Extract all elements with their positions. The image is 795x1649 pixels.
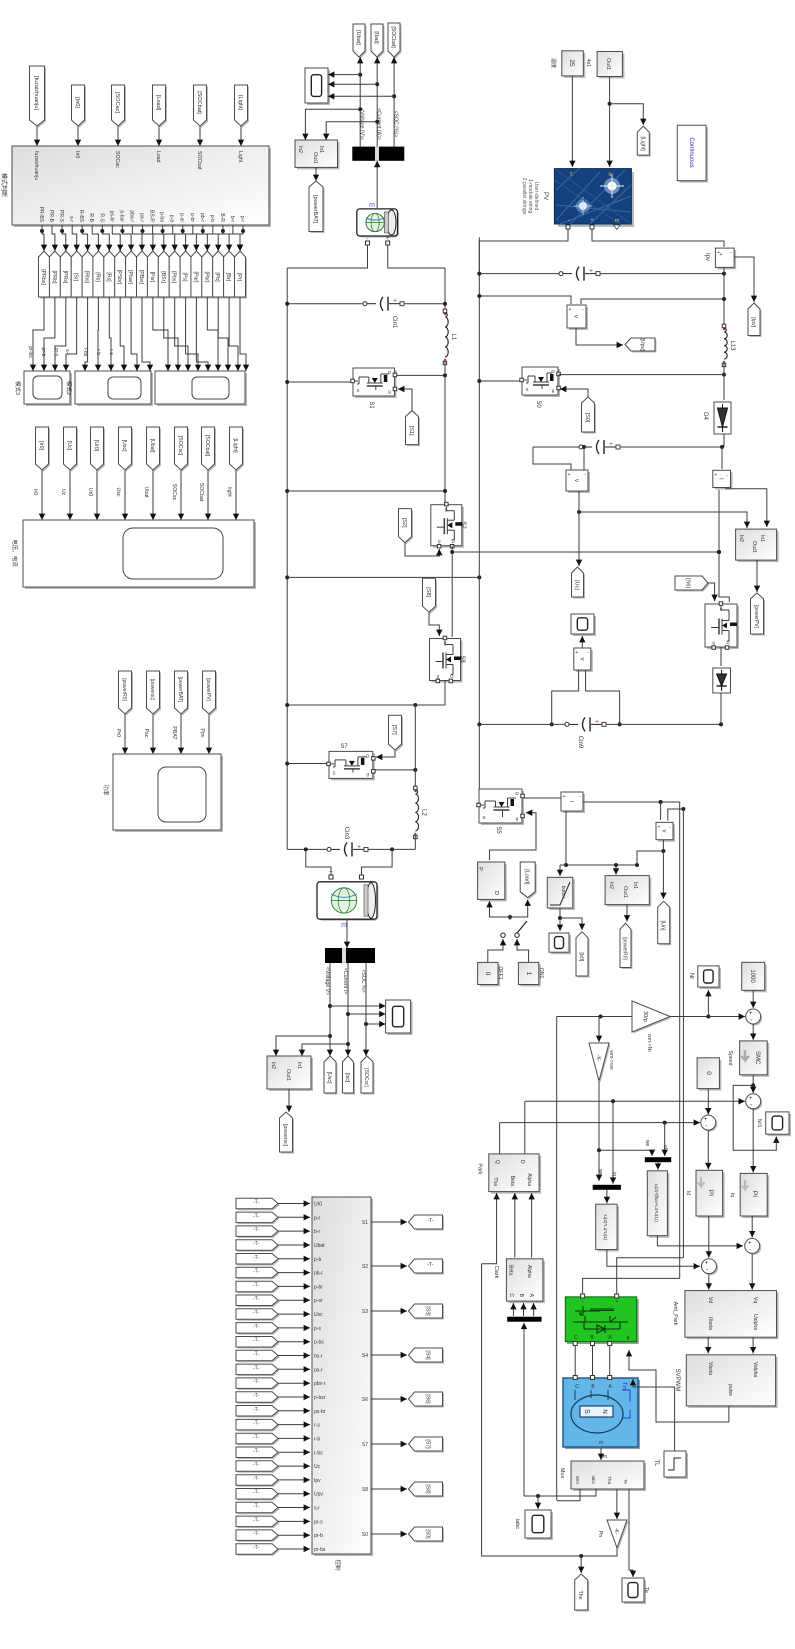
tag [S2] from (400, 510, 413, 544)
svg-text:-T-: -T- (253, 1296, 259, 1302)
wire sum5 to AntiPark Vd (708, 1275, 710, 1290)
svg-text:[powerR0]: [powerR0] (622, 937, 628, 960)
svg-text:[Usc]: [Usc] (326, 1072, 332, 1084)
svg-text:In2: In2 (270, 1062, 276, 1069)
svg-text:Light: Light (237, 151, 243, 163)
svg-text:Q: Q (494, 1160, 500, 1164)
svg-text:D4: D4 (702, 412, 708, 420)
svg-text:Nr: Nr (688, 973, 694, 979)
tag [S0] from (583, 399, 596, 434)
scope iabc (527, 1512, 553, 1540)
svg-text:L13: L13 (729, 340, 735, 351)
tag [Upv] from (627, 340, 657, 353)
svg-text:-T-: -T- (253, 1338, 259, 1344)
svg-text:电压、电流: 电压、电流 (11, 539, 19, 567)
svg-text:PR-BS: PR-BS (38, 207, 44, 223)
svg-text:m: m (599, 1440, 603, 1446)
svg-text:S: S (583, 1409, 590, 1414)
svg-text:Id: Id (685, 1191, 691, 1195)
svg-text:[fuzaizhuanju]: [fuzaizhuanju] (33, 76, 39, 110)
wire Park Q up to sum3 line (499, 1123, 501, 1154)
svg-text:[Ir0]: [Ir0] (38, 441, 44, 450)
svg-text:+: + (575, 650, 578, 656)
wire fcn1 to sum5 (607, 1250, 700, 1267)
svg-text:Continuous: Continuous (688, 137, 694, 167)
wire -K- down to we node (598, 1081, 600, 1181)
goto tag [S0] for S0 (410, 1529, 444, 1543)
svg-text:-T-: -T- (253, 1365, 259, 1371)
tag fuzaizhuanju input (31, 68, 46, 128)
wire green plus up-right to DC bus (617, 1258, 684, 1294)
svg-text:[S1]: [S1] (408, 426, 414, 436)
svg-text:0: 0 (705, 1071, 712, 1075)
svg-text:pb-r: pb-r (199, 213, 205, 222)
wire battery1 plus to right rail (388, 245, 445, 268)
from tag -T- input Uc (238, 1462, 280, 1473)
wire S2 drain down to S8 (451, 546, 453, 637)
svg-text:L1: L1 (450, 334, 456, 341)
wire [Uc] to UI block (69, 470, 71, 520)
wires into mode block (36, 126, 38, 146)
wire butter to scope and Ir0 (559, 908, 561, 931)
svg-text:D: D (519, 1160, 525, 1164)
svg-text:-T-: -T- (253, 1504, 259, 1510)
voltage sensor Uc (568, 472, 590, 493)
svg-text:[S7]: [S7] (425, 1439, 431, 1449)
svg-text:[Uc]: [Uc] (574, 580, 580, 590)
svg-text:-: - (361, 870, 363, 876)
svg-text:S7: S7 (340, 744, 348, 750)
goto tag [S4] for S4 (410, 1350, 444, 1364)
svg-text:[Ipv]: [Ipv] (750, 317, 756, 327)
svg-text:r-s: r-s (314, 1423, 320, 1429)
mosfet S7 (331, 753, 375, 780)
svg-text:we: we (644, 1140, 650, 1147)
wire S7 gate (376, 750, 395, 757)
svg-text:-T-: -T- (253, 1517, 259, 1523)
tag [In0] input (73, 87, 86, 128)
svg-text:p-br: p-br (314, 1284, 323, 1290)
svg-text:[PRs]: [PRs] (62, 271, 68, 284)
svg-text:+: + (705, 1261, 709, 1267)
wire to Nr scope (707, 990, 709, 1017)
svg-text:0: 0 (484, 972, 491, 976)
wires S0 (477, 379, 481, 383)
svg-text:g: g (627, 1335, 630, 1341)
sum4 Vq (746, 1240, 761, 1255)
svg-text:S: S (719, 607, 722, 612)
svg-text:模式判断: 模式判断 (0, 173, 8, 197)
svg-text:-T-: -T- (253, 1310, 259, 1316)
svg-text:-K-: -K- (613, 1528, 619, 1535)
tag [Light] from (231, 429, 244, 472)
svg-text:S0: S0 (535, 400, 541, 408)
svg-text:S6: S6 (362, 1397, 368, 1403)
svg-text:<Current (A)>: <Current (A)> (376, 108, 382, 140)
PV output ports (566, 225, 570, 229)
svg-text:ON1: ON1 (538, 968, 544, 979)
wire Ipv branch to tag (734, 257, 754, 302)
from tag -T- input Upv (238, 1490, 280, 1501)
svg-text:S0: S0 (362, 1532, 368, 1538)
svg-text:+: + (393, 298, 397, 305)
svg-text:i: i (568, 801, 574, 802)
wire -T- to pb-r (278, 1272, 310, 1274)
svg-text:[Rb]: [Rb] (94, 272, 100, 282)
svg-text:-T-: -T- (253, 1213, 259, 1219)
wire iq feedback into sum2 (525, 1100, 745, 1102)
svg-text:In2: In2 (608, 882, 614, 889)
svg-text:+: + (658, 824, 661, 830)
svg-text:pr-b: pr-b (314, 1533, 323, 1539)
constant ON1 1 (520, 964, 540, 986)
svg-text:S2: S2 (362, 1264, 368, 1270)
svg-text:Mux: Mux (559, 1468, 565, 1479)
wire id down to mux (664, 1123, 666, 1156)
tag [S7] from (390, 717, 403, 752)
wire Upv to tag (576, 328, 623, 345)
svg-text:+: + (329, 870, 333, 876)
wire [Ir0] to UI block (41, 470, 43, 520)
svg-text:2 parallel strings: 2 parallel strings (521, 178, 527, 215)
tag [SOCsc] goto (363, 1058, 375, 1095)
svg-text:[SOCsc]: [SOCsc] (177, 436, 183, 456)
svg-text:pr-s: pr-s (53, 348, 59, 357)
from tag -T- input bs-r (238, 1352, 280, 1363)
svg-text:[Un]: [Un] (660, 920, 666, 931)
svg-text:[Load]: [Load] (155, 95, 161, 111)
svg-text:[Ir0]: [Ir0] (578, 952, 584, 961)
tag [powerPV] from (204, 673, 217, 716)
svg-text:[Ibat]: [Ibat] (373, 31, 379, 44)
svg-text:[Load]: [Load] (524, 869, 530, 885)
wires S1 (285, 380, 289, 384)
svg-text:fuzaizhuanju: fuzaizhuanju (33, 151, 39, 180)
wire S6 to diode (720, 647, 722, 666)
svg-text:SOCbat: SOCbat (196, 151, 202, 170)
svg-text:[BSr]: [BSr] (160, 271, 166, 283)
svg-text:pba-r: pba-r (128, 210, 134, 222)
goto tag [S8] for S8 (410, 1484, 444, 1498)
svg-text:S2: S2 (460, 521, 466, 529)
wire -T- to ps-br (278, 1410, 310, 1412)
tag [Load] input (154, 87, 167, 128)
wire -T- to r-b (278, 1437, 310, 1439)
tag [Ir0] goto (578, 933, 590, 977)
scope supercap (388, 1002, 413, 1035)
svg-text:pb-r: pb-r (314, 1271, 323, 1277)
svg-text:S4: S4 (362, 1353, 368, 1359)
svg-text:Clark: Clark (493, 1266, 499, 1279)
from tag -T- input r-s (238, 1421, 280, 1432)
scope Nr1 (768, 1114, 791, 1136)
svg-text:[Rs]: [Rs] (105, 272, 111, 282)
tag [powerR0] goto (622, 925, 633, 969)
svg-text:p-r: p-r (314, 1215, 320, 1221)
svg-text:控制: 控制 (334, 1559, 342, 1571)
svg-text:[Upv]: [Upv] (639, 338, 645, 351)
wire -T- to Uc (278, 1465, 310, 1467)
svg-text:Cin9: Cin9 (577, 736, 583, 749)
tag [Uc] goto (573, 569, 585, 599)
block voltage-current display 电压、电流 (25, 522, 256, 589)
wire id feedback into sum3 (500, 1122, 700, 1124)
svg-text:p-r: p-r (239, 216, 245, 222)
svg-text:[Light]: [Light] (232, 438, 238, 453)
svg-text:Out1: Out1 (605, 58, 611, 70)
svg-text:[SOCac]: [SOCac] (114, 92, 120, 113)
wire 0 to sum3 (707, 1089, 709, 1115)
svg-text:b-r: b-r (229, 216, 235, 222)
svg-text:[powersc]: [powersc] (149, 679, 155, 701)
wire TL to Tm (633, 1379, 675, 1451)
constant OFF1 0 (480, 964, 500, 986)
svg-text:OFF1: OFF1 (497, 966, 503, 979)
svg-text:[powersc]: [powersc] (282, 1124, 288, 1147)
svg-text:Tm: Tm (621, 1382, 627, 1390)
wire PI Iq to sum4 (751, 1216, 753, 1237)
from tag -T- input pr-bs (238, 1545, 280, 1556)
svg-text:SMC: SMC (754, 1051, 760, 1065)
svg-text:[SOCsc]: [SOCsc] (363, 1068, 369, 1087)
svg-text:[S4]: [S4] (425, 1350, 431, 1360)
from tag -T- input p-bsr (238, 1393, 280, 1404)
capacitor Cin3 row (287, 848, 327, 850)
svg-text:<SOC (%)>: <SOC (%)> (393, 111, 399, 138)
PI controller Iq (742, 1175, 769, 1218)
svg-text:Out1: Out1 (285, 1069, 291, 1081)
load line to right (583, 801, 680, 803)
svg-text:<SOC %>: <SOC %> (360, 969, 366, 992)
sum5 Vd (703, 1260, 718, 1275)
svg-text:<Voltage V>: <Voltage V> (324, 967, 330, 995)
tag [powersc] goto (281, 1114, 294, 1154)
wire sum2 to PI Iq (752, 1109, 754, 1173)
sum1 speed (747, 1011, 762, 1026)
mosfet S5 (481, 791, 524, 825)
svg-text:Wm: Wm (575, 1476, 580, 1484)
svg-text:pr-bs: pr-bs (314, 1547, 326, 1553)
svg-text:p-br: p-br (189, 213, 195, 222)
block SMC speed controller (742, 1043, 770, 1077)
svg-text:PI: PI (751, 1191, 758, 1197)
wire Iabc out to scope and clark (524, 1489, 596, 1496)
block power display 功率 (115, 756, 223, 832)
svg-text:Ipv: Ipv (704, 253, 710, 261)
svg-text:[PRbs]: [PRbs] (40, 269, 46, 285)
svg-text:v: v (661, 830, 667, 833)
from tag -T- input s-r (238, 1504, 280, 1515)
svg-text:m: m (603, 1454, 607, 1460)
svg-text:Ualpha: Ualpha (752, 1314, 758, 1330)
svg-text:S1: S1 (362, 1220, 368, 1226)
svg-text:[S6]: [S6] (425, 1394, 431, 1404)
wire [Ubat] to UI block (152, 470, 154, 520)
wire gain to sum1 (670, 1016, 745, 1018)
svg-text:Ppv: Ppv (199, 729, 205, 738)
wire sum1 to SMC (752, 1024, 754, 1040)
from tag -T- input pb-r (238, 1269, 280, 1280)
left rail circuit A (286, 268, 288, 849)
tag [powersc] from (148, 673, 161, 716)
block Park transform (491, 1156, 541, 1194)
svg-text:Pn: Pn (597, 1531, 603, 1538)
tag [SOCbat] from (203, 429, 216, 472)
svg-text:light: light (226, 487, 232, 497)
svg-text:Iq: Iq (729, 1193, 735, 1197)
svg-text:Upv: Upv (314, 1492, 323, 1498)
block mode2 subsystem (77, 373, 153, 406)
tag [powerR0] from (120, 673, 133, 716)
tag [Ipv] goto (750, 305, 762, 338)
inductor L1 (443, 309, 447, 313)
wire S8 to tag (371, 1488, 407, 1490)
from tag -T- input ps-br (238, 1407, 280, 1418)
svg-text:[S6]: [S6] (685, 578, 691, 588)
tag [Isc] goto (344, 1058, 355, 1095)
wire S1 to tag (371, 1221, 407, 1223)
svg-text:S8: S8 (362, 1487, 368, 1493)
wire PI Id to sum5 (708, 1216, 710, 1258)
block control 控制 (314, 1199, 373, 1556)
svg-text:TL: TL (653, 1459, 659, 1467)
wire -T- to p-s (278, 1327, 310, 1329)
wire -T- to p-bs (278, 1341, 310, 1343)
svg-text:Uc: Uc (60, 489, 66, 496)
svg-text:S: S (482, 815, 485, 820)
svg-text:[Sr]: [Sr] (73, 273, 79, 282)
wires AntiPark to SVPWM (707, 1337, 709, 1353)
wire pulse to green g (629, 1350, 729, 1422)
inductor L2 (414, 786, 418, 790)
svg-text:+: + (568, 472, 571, 478)
diode D4 (714, 402, 731, 434)
wire -T- to p-bsr (278, 1396, 310, 1398)
wire -T- to ps-r (278, 1368, 310, 1370)
svg-text:bs-r: bs-r (314, 1354, 323, 1360)
svg-text:+: + (714, 472, 717, 478)
wire -T- to Usc (278, 1313, 310, 1315)
wire rail join y491 (285, 489, 289, 493)
tag [SOCac] input (113, 87, 126, 128)
svg-text:SOCac: SOCac (114, 151, 120, 168)
wire mux to fcn1 (606, 1190, 608, 1203)
block Anti_Park (687, 1293, 779, 1340)
wire S6 gate (708, 583, 715, 601)
svg-text:-T-: -T- (253, 1545, 259, 1551)
wire Park D up to sum2 line (524, 1101, 526, 1154)
svg-text:-T-: -T- (253, 1407, 259, 1413)
tag [Light] input (236, 87, 249, 128)
svg-text:R-BS: R-BS (78, 210, 84, 223)
svg-text:pr-s: pr-s (314, 1519, 323, 1525)
wire [powersc] to power block (152, 714, 154, 754)
svg-text:Usc: Usc (314, 1312, 323, 1318)
wire S3 to tag (371, 1310, 407, 1312)
svg-text:p-s: p-s (314, 1326, 321, 1332)
svg-text:-T-: -T- (253, 1269, 259, 1275)
wire S8 source to rail y705 (287, 681, 445, 706)
svg-text:PBAT: PBAT (171, 726, 177, 740)
step block TL (666, 1453, 688, 1479)
constant 0 (699, 1060, 721, 1091)
wire -T- to p-r (278, 1216, 310, 1218)
svg-text:SOCsc: SOCsc (171, 484, 177, 501)
bus selector supercap (325, 948, 375, 963)
mosfet S0 (524, 369, 560, 397)
svg-text:+: + (563, 794, 566, 800)
svg-text:Load: Load (155, 151, 161, 163)
svg-text:[Pb]: [Pb] (214, 272, 220, 282)
wire Uc sensor down (577, 510, 581, 514)
svg-text:-T-: -T- (427, 1262, 434, 1268)
block Out1 powerR0 calc (607, 878, 651, 907)
wire [SOCsc] to UI block (180, 470, 182, 520)
svg-text:In1: In1 (759, 535, 765, 542)
wire Out1 to powerR0 (626, 905, 628, 922)
wire DC bus line 1 (679, 802, 681, 1278)
from tag -T- input pbs-r (238, 1379, 280, 1390)
svg-text:Te: Te (623, 1479, 628, 1484)
gain -K- wm->we (591, 1045, 611, 1083)
svg-text:30/p: 30/p (642, 1011, 648, 1022)
svg-text:-T-: -T- (253, 1421, 259, 1427)
constant 25 temperature (564, 53, 586, 78)
wire [Ur0] to UI block (96, 470, 98, 520)
block Clark transform (508, 1261, 545, 1303)
svg-text:Speed: Speed (727, 1050, 733, 1065)
svg-text:-T-: -T- (253, 1393, 259, 1399)
wire cross-link y552 to PV circuit (452, 551, 719, 553)
svg-text:Ur0: Ur0 (87, 488, 93, 496)
svg-text:B-R: B-R (219, 213, 225, 222)
svg-text:Te: Te (643, 1587, 649, 1593)
block universal bridge green (567, 1299, 639, 1344)
wire DC bus line 2 (682, 809, 684, 1258)
wire Wm to gain 30/p (557, 1016, 632, 1018)
svg-text:PR-B: PR-B (48, 210, 54, 223)
tag [Usc] from (120, 429, 133, 472)
svg-text:S7: S7 (362, 1442, 368, 1448)
tag [Un] goto (659, 903, 671, 946)
from tag -T- input b-r (238, 1227, 280, 1238)
fcn2 flux block (649, 1173, 669, 1238)
tag [S1] from (407, 412, 420, 446)
svg-text:[Ubat]: [Ubat] (355, 30, 361, 45)
svg-text:[S8]: [S8] (425, 587, 431, 597)
svg-text:wm->Nr: wm->Nr (646, 1034, 652, 1053)
goto tag -T- for S2 (410, 1261, 444, 1275)
svg-text:-T-: -T- (427, 1218, 434, 1224)
svg-text:Alpha: Alpha (526, 1265, 532, 1278)
svg-text:[PRb]: [PRb] (51, 271, 57, 285)
svg-text:-T-: -T- (253, 1434, 259, 1440)
svg-text:P: P (477, 867, 483, 871)
svg-text:模式3: 模式3 (14, 381, 22, 395)
from tag -T- input p-sr (238, 1297, 280, 1308)
wire [Usc] to UI block (124, 470, 126, 520)
svg-text:C: C (508, 1293, 514, 1297)
svg-text:s-r: s-r (64, 349, 70, 355)
svg-text:-: - (367, 236, 369, 242)
svg-text:-T-: -T- (253, 1476, 259, 1482)
svg-text:Ir: Ir (608, 172, 612, 178)
svg-text:In2: In2 (738, 535, 744, 542)
wire -T- to s-r (278, 1507, 310, 1509)
svg-text:[PBsr]: [PBsr] (138, 270, 144, 285)
svg-text:Out1: Out1 (312, 152, 318, 164)
svg-text:[Br]: [Br] (225, 273, 231, 282)
